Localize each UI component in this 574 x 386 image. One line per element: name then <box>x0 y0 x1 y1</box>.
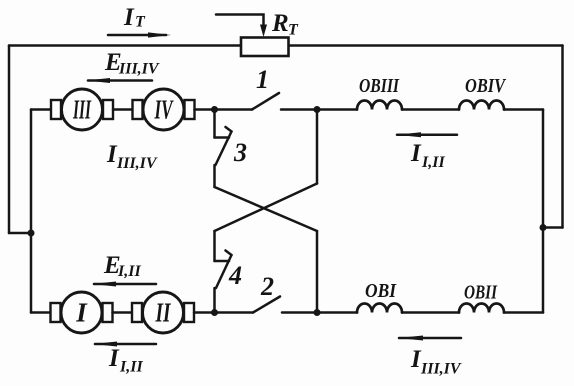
wire to machine III <box>31 108 53 111</box>
wire switch 4 lower <box>213 288 216 313</box>
node B <box>314 106 321 113</box>
svg-text:I,II: I,II <box>119 359 143 376</box>
wire machine II to node C <box>194 311 215 314</box>
arrow E III,IV left <box>86 78 152 83</box>
node right junction <box>540 224 547 231</box>
svg-text:T: T <box>288 22 299 39</box>
machine I <box>51 292 113 333</box>
machine III <box>51 89 113 130</box>
svg-text:1: 1 <box>256 65 269 94</box>
coil OBIII <box>357 101 402 110</box>
arrow I III,IV bottom right <box>398 336 461 341</box>
svg-text:T: T <box>135 14 146 31</box>
wire switch 3 upper <box>213 110 216 138</box>
wire to machine I <box>31 311 52 314</box>
svg-text:2: 2 <box>260 272 274 301</box>
wire machine IV to switch 1 <box>195 108 215 111</box>
wire diagonal right to left <box>215 184 318 232</box>
node A <box>211 106 218 113</box>
coil OBIV <box>459 101 504 110</box>
wire OBII to right corner <box>504 311 543 314</box>
wire switch 3 lower <box>213 165 216 187</box>
label I III,IV top left <box>106 141 158 172</box>
node C <box>211 309 218 316</box>
label E III,IV <box>104 49 160 78</box>
arrow I I,II left <box>396 132 457 137</box>
wire switch 2 to node D <box>282 311 317 314</box>
wire OBIV to right corner <box>504 108 543 111</box>
wire left connector <box>9 232 31 235</box>
svg-text:R: R <box>271 10 289 37</box>
svg-text:OBII: OBII <box>464 282 498 304</box>
wire right connector <box>543 226 563 229</box>
switch 3 <box>215 127 232 165</box>
wire machine I to II <box>113 311 133 314</box>
coil OBI <box>357 304 402 313</box>
wire OBIII to OBIV <box>402 108 459 111</box>
svg-text:4: 4 <box>228 261 242 290</box>
node D <box>314 309 321 316</box>
wire right inner vertical <box>542 110 545 313</box>
svg-text:III,IV: III,IV <box>420 361 462 378</box>
label IT <box>123 4 146 31</box>
wire left inner vertical <box>30 110 33 313</box>
svg-text:I,II: I,II <box>117 263 141 280</box>
wire OBI to OBII <box>402 311 459 314</box>
svg-text:III: III <box>72 95 91 125</box>
switch 1 <box>215 93 280 110</box>
coil OBII <box>459 304 504 313</box>
switch 2 <box>215 297 281 313</box>
wire right crossover vertical upper <box>316 110 319 184</box>
switch 4 <box>215 251 232 289</box>
svg-text:OBIII: OBIII <box>359 75 400 97</box>
arrow IT right <box>108 32 171 37</box>
node left junction <box>28 230 35 237</box>
wire right crossover vertical lower <box>316 231 319 313</box>
svg-text:OBIV: OBIV <box>465 75 506 97</box>
svg-text:I: I <box>108 345 120 372</box>
svg-text:OBI: OBI <box>365 280 397 302</box>
label RT <box>271 10 299 39</box>
wire machine III to IV <box>113 108 133 111</box>
svg-text:I: I <box>123 4 135 31</box>
svg-text:I,II: I,II <box>421 154 445 171</box>
label E I,II <box>103 252 141 280</box>
label I I,II bottom left <box>108 345 143 376</box>
arrow I I,II bottom left <box>93 342 156 347</box>
label I III,IV bottom right <box>410 346 462 378</box>
svg-text:3: 3 <box>233 138 247 167</box>
wire top rail right <box>289 44 563 47</box>
svg-text:III,IV: III,IV <box>116 155 158 172</box>
machine II <box>132 292 194 333</box>
wire diagonal left to right <box>215 187 318 231</box>
wire left outer vertical <box>8 46 11 234</box>
svg-text:I: I <box>410 140 422 167</box>
wire right outer vertical <box>561 46 564 228</box>
svg-text:I: I <box>75 298 88 328</box>
wire node D to coil OBI <box>317 311 357 314</box>
arrow E I,II left <box>92 282 156 287</box>
label I I,II top right <box>410 140 445 171</box>
wire switch 1 to node B <box>281 108 317 111</box>
wire top rail left <box>9 44 241 47</box>
resistor RT <box>216 15 289 57</box>
svg-text:IV: IV <box>154 95 174 125</box>
wire switch 4 upper <box>213 231 216 261</box>
wire node B to coil OBIII <box>317 108 357 111</box>
machine IV <box>133 89 195 130</box>
svg-text:III,IV: III,IV <box>118 61 160 78</box>
svg-text:II: II <box>155 298 172 328</box>
